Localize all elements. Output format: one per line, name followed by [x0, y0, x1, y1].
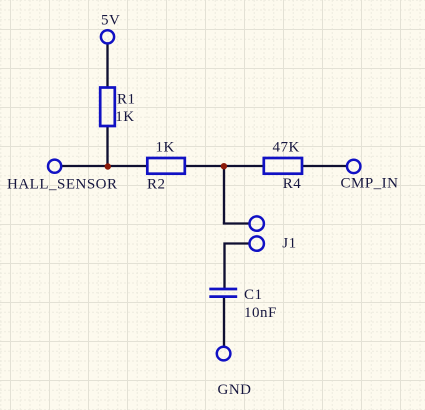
svg-text:HALL_SENSOR: HALL_SENSOR [7, 177, 118, 193]
wire from J1 pin 2 [225, 244, 251, 291]
connector J1 pin 2 [250, 236, 264, 250]
capacitor C1 plate top [209, 288, 237, 291]
wire R2 to R4 [185, 165, 265, 167]
port terminal CMP_IN [347, 160, 360, 173]
svg-text:47K: 47K [273, 140, 300, 156]
wire R1 to node A [106, 126, 108, 167]
wire C1 to GND terminal [223, 297, 225, 348]
wire 5V terminal to R1 [106, 43, 108, 88]
svg-text:R1: R1 [117, 92, 136, 108]
resistor R4 [264, 158, 302, 174]
svg-text:1K: 1K [156, 140, 175, 156]
svg-text:J1: J1 [282, 236, 296, 252]
ground terminal GND [217, 347, 231, 361]
wire R4 to CMP_IN terminal [302, 165, 348, 167]
power terminal 5V [101, 30, 114, 43]
svg-text:R2: R2 [147, 177, 166, 193]
svg-text:GND: GND [218, 382, 252, 398]
svg-text:5V: 5V [101, 13, 120, 29]
wire HALL_SENSOR terminal to R2 [61, 165, 148, 167]
wire to J1 pin 1 [223, 222, 250, 224]
resistor R2 [147, 158, 185, 174]
junction node A [105, 163, 111, 169]
resistor R1 [100, 88, 115, 127]
svg-text:10nF: 10nF [244, 305, 277, 321]
wire node B down [223, 166, 225, 224]
svg-text:CMP_IN: CMP_IN [341, 176, 399, 192]
svg-text:C1: C1 [244, 287, 263, 303]
connector J1 pin 1 [250, 216, 264, 230]
port terminal HALL_SENSOR [48, 160, 61, 173]
svg-text:1K: 1K [115, 109, 134, 125]
capacitor C1 plate bottom [209, 295, 237, 298]
svg-text:R4: R4 [283, 176, 302, 192]
junction node B [221, 163, 227, 169]
